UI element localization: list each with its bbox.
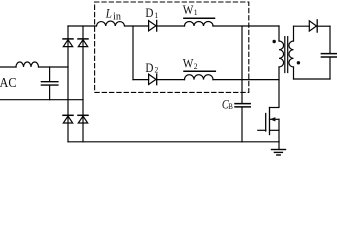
- capacitor CB top lead: [241, 26, 243, 103]
- diode D1: [149, 20, 157, 31]
- diode output: [309, 20, 317, 32]
- inductor Lin: [97, 21, 125, 26]
- capacitor AC-filter plates: [41, 82, 58, 85]
- wire D2 to W2: [157, 79, 185, 81]
- wire AC top to bridge: [39, 66, 69, 68]
- wire bridge leg 2: [82, 26, 84, 142]
- label D2: [145, 60, 158, 75]
- transformer core: [285, 37, 288, 73]
- diode bridge lower-left: [63, 115, 73, 123]
- wire to D2: [133, 79, 149, 81]
- ground bar 3: [277, 154, 280, 156]
- wire bridge leg 1: [67, 26, 69, 142]
- label D1: [145, 6, 158, 21]
- MOSFET gate bar: [265, 114, 267, 132]
- winding W2 core bar: [184, 70, 215, 72]
- capacitor AC-filter bottom lead: [49, 86, 51, 100]
- MOSFET source lead: [278, 119, 280, 142]
- dashed box ICS cell: [95, 2, 249, 92]
- MOSFET Q drain bend: [270, 107, 280, 109]
- label CB: [222, 99, 233, 112]
- transformer primary lead bottom / drain wire: [278, 67, 280, 107]
- dot secondary: [297, 61, 300, 64]
- MOSFET gate lead: [258, 129, 266, 131]
- MOSFET source contact: [270, 129, 280, 131]
- svg-text:1: 1: [154, 11, 158, 20]
- winding W1 core bar: [184, 17, 215, 19]
- transformer secondary lead top: [293, 26, 295, 41]
- winding W1: [185, 22, 214, 27]
- transformer secondary lead bottom: [293, 67, 295, 79]
- svg-text:W: W: [183, 56, 194, 71]
- ground stem: [278, 142, 280, 150]
- diode bridge upper-left: [63, 39, 73, 47]
- svg-text:W: W: [183, 2, 194, 17]
- wire W1 to primary: [213, 25, 279, 27]
- svg-text:2: 2: [194, 62, 198, 72]
- svg-text:D: D: [145, 60, 154, 75]
- wire secondary top to output diode: [294, 25, 310, 27]
- wire top rail bridge to Lin: [68, 25, 97, 27]
- wire Lin to D1: [125, 25, 149, 27]
- wire W2 to drain node: [213, 79, 279, 81]
- svg-text:B: B: [228, 101, 233, 111]
- svg-text:2: 2: [154, 65, 158, 74]
- diode D2: [149, 74, 157, 85]
- dot primary: [273, 40, 276, 43]
- wire junction after Lin down to D2 branch: [132, 26, 134, 80]
- transformer primary lead top: [278, 26, 280, 41]
- transformer primary winding: [279, 41, 284, 67]
- label W1: [183, 2, 198, 17]
- label Lin: [105, 7, 122, 23]
- winding W2: [185, 75, 214, 80]
- svg-text:L: L: [105, 7, 112, 21]
- capacitor AC-filter top lead: [49, 67, 51, 81]
- svg-text:AC: AC: [0, 75, 17, 91]
- label W2: [183, 56, 198, 71]
- capacitor output bottom lead: [329, 58, 331, 79]
- wire output bottom: [294, 78, 331, 80]
- MOSFET channel bar: [269, 108, 271, 135]
- svg-text:1: 1: [194, 8, 198, 18]
- wire output diode to corner: [317, 25, 330, 27]
- diode bridge lower-right: [78, 115, 88, 123]
- diode bridge upper-right: [78, 39, 88, 47]
- MOSFET body arrowhead: [270, 117, 276, 121]
- wire output right top lead: [329, 26, 331, 53]
- ground bar 1: [272, 149, 286, 151]
- ground bar 2: [274, 151, 282, 153]
- svg-text:D: D: [145, 6, 154, 21]
- capacitor output plates: [321, 54, 337, 57]
- transformer secondary winding: [289, 41, 294, 67]
- inductor AC-filter: [16, 62, 39, 67]
- wire AC bottom: [0, 99, 83, 101]
- capacitor CB bottom lead: [241, 108, 243, 142]
- svg-text:in: in: [113, 12, 121, 23]
- MOSFET body arrow line: [270, 118, 280, 120]
- wire bottom rail: [68, 141, 279, 143]
- label AC: [0, 75, 17, 91]
- wire D1 to W1: [157, 25, 185, 27]
- capacitor CB plates: [235, 104, 250, 107]
- wire AC top: [0, 66, 16, 68]
